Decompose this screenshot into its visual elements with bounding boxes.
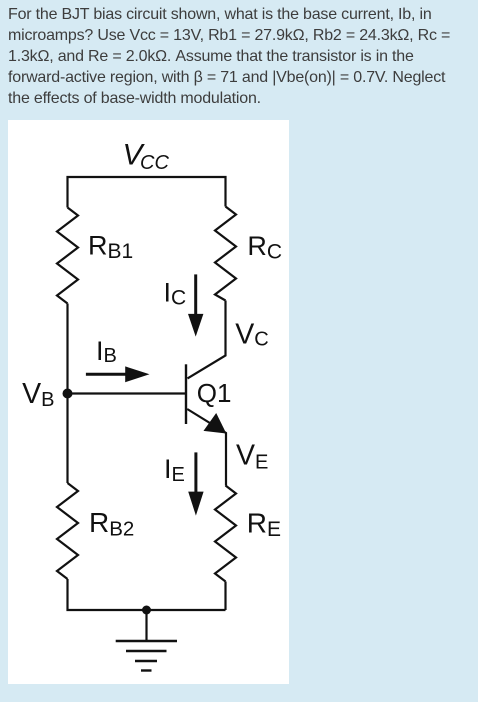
svg-text:RB1: RB1 [88,231,133,264]
svg-text:VCC: VCC [123,138,170,174]
svg-text:VC: VC [235,318,268,350]
svg-text:RC: RC [247,231,282,263]
svg-text:VB: VB [22,378,54,411]
svg-text:Q1: Q1 [197,378,232,408]
svg-text:IB: IB [96,336,117,367]
svg-text:IC: IC [164,278,187,310]
svg-text:RB2: RB2 [89,507,134,541]
svg-text:VE: VE [236,439,268,473]
svg-text:IE: IE [164,454,185,486]
svg-text:RE: RE [247,508,281,541]
